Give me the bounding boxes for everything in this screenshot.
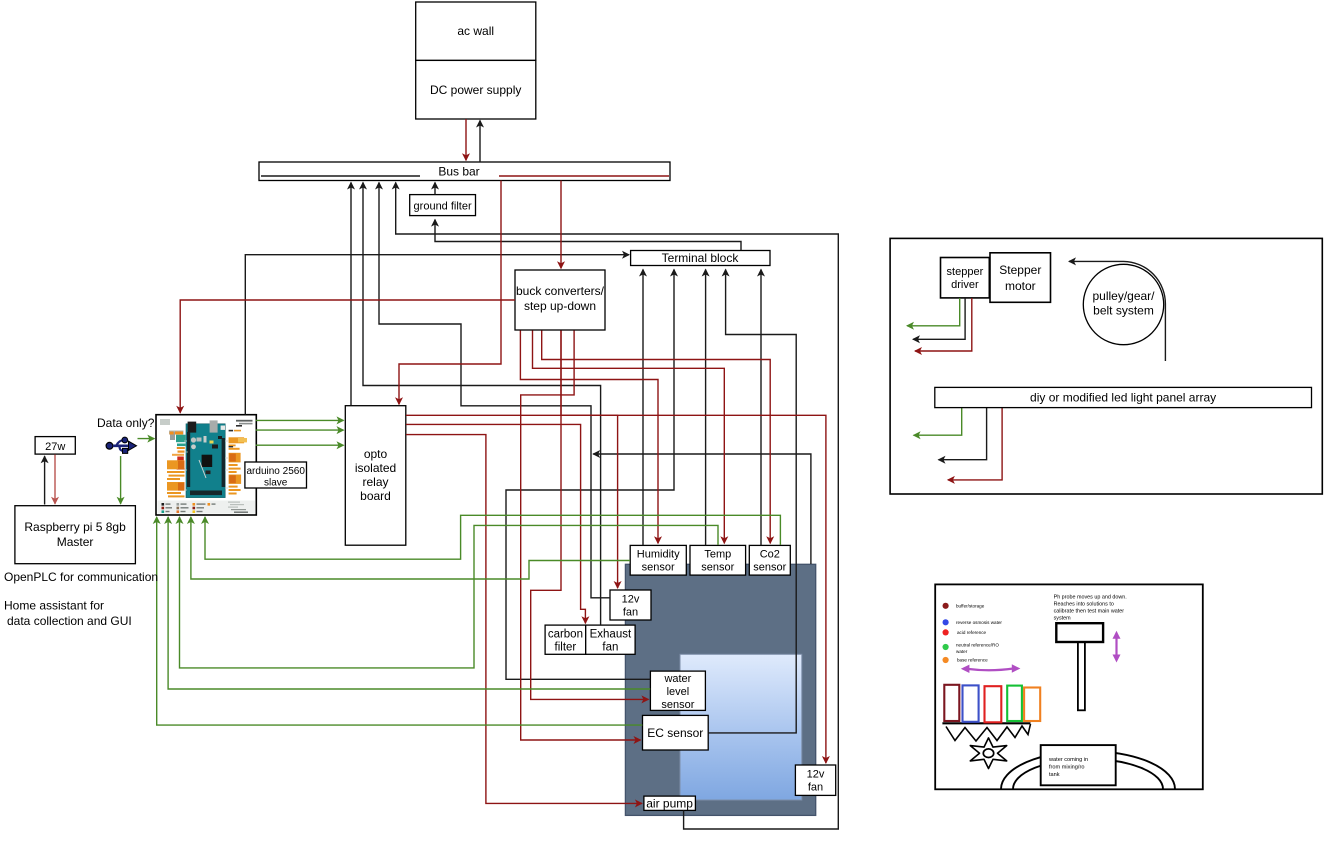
svg-text:opto: opto	[364, 447, 388, 461]
svg-text:Terminal block: Terminal block	[662, 251, 740, 265]
svg-text:tank: tank	[1049, 772, 1060, 778]
svg-text:Reaches into solutions to: Reaches into solutions to	[1054, 602, 1114, 608]
svg-text:Stepper: Stepper	[999, 263, 1041, 277]
svg-text:ac wall: ac wall	[457, 24, 494, 38]
svg-text:belt system: belt system	[1093, 304, 1154, 318]
svg-text:12v: 12v	[622, 594, 640, 606]
svg-text:driver: driver	[951, 279, 979, 291]
svg-text:motor: motor	[1005, 279, 1036, 293]
svg-text:sensor: sensor	[701, 562, 734, 574]
svg-text:fan: fan	[602, 642, 618, 654]
svg-text:Exhaust: Exhaust	[590, 629, 632, 641]
svg-text:isolated: isolated	[355, 461, 396, 475]
svg-text:from mixing/ro: from mixing/ro	[1049, 765, 1084, 771]
svg-text:arduino 2560: arduino 2560	[247, 466, 306, 477]
svg-text:sensor: sensor	[642, 562, 675, 574]
svg-text:filter: filter	[555, 642, 577, 654]
svg-text:level: level	[667, 686, 690, 698]
svg-text:fan: fan	[808, 782, 823, 794]
svg-text:sensor: sensor	[753, 562, 786, 574]
svg-text:buffer/storage: buffer/storage	[956, 603, 985, 608]
svg-text:Bus bar: Bus bar	[438, 165, 479, 179]
svg-text:pulley/gear/: pulley/gear/	[1092, 289, 1155, 303]
svg-text:Home assistant for: Home assistant for	[4, 599, 104, 613]
svg-text:carbon: carbon	[548, 629, 583, 641]
svg-text:neutral reference/RO: neutral reference/RO	[956, 643, 999, 648]
svg-text:stepper: stepper	[947, 266, 984, 278]
svg-text:Co2: Co2	[760, 549, 780, 561]
svg-text:water: water	[956, 649, 968, 654]
svg-text:board: board	[360, 489, 391, 503]
svg-text:step up-down: step up-down	[524, 299, 596, 313]
svg-text:DC power supply: DC power supply	[430, 83, 521, 97]
svg-text:Humidity: Humidity	[637, 549, 680, 561]
svg-text:Raspberry pi 5 8gb: Raspberry pi 5 8gb	[24, 520, 126, 534]
svg-text:27w: 27w	[45, 441, 65, 453]
svg-text:data collection and GUI: data collection and GUI	[7, 614, 132, 628]
svg-text:fan: fan	[623, 607, 638, 619]
svg-text:buck converters/: buck converters/	[516, 284, 605, 298]
svg-text:relay: relay	[362, 475, 388, 489]
svg-text:Ph probe moves up and down.: Ph probe moves up and down.	[1054, 595, 1127, 601]
svg-text:slave: slave	[264, 478, 288, 489]
svg-text:sensor: sensor	[661, 699, 694, 711]
svg-text:water coming in: water coming in	[1048, 757, 1088, 763]
svg-text:air pump: air pump	[646, 796, 693, 810]
svg-text:system: system	[1054, 616, 1072, 622]
svg-text:ground filter: ground filter	[414, 201, 472, 213]
svg-text:12v: 12v	[807, 769, 825, 781]
svg-text:diy or modified led light pane: diy or modified led light panel array	[1030, 391, 1216, 405]
svg-text:water: water	[663, 673, 691, 685]
svg-text:EC sensor: EC sensor	[647, 726, 703, 740]
svg-text:calibrate then test main water: calibrate then test main water	[1054, 609, 1125, 615]
svg-text:Temp: Temp	[704, 549, 731, 561]
svg-text:acid reference: acid reference	[957, 630, 987, 635]
svg-text:Data only?: Data only?	[97, 416, 155, 430]
svg-text:Master: Master	[57, 535, 94, 549]
svg-text:base reference: base reference	[957, 658, 988, 663]
svg-text:OpenPLC for communication: OpenPLC for communication	[4, 570, 158, 584]
svg-text:reverse osmosis water: reverse osmosis water	[956, 620, 1002, 625]
